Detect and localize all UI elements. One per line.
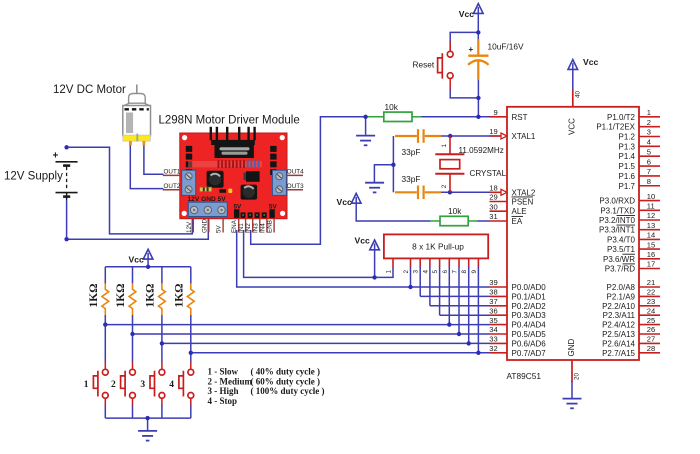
chip left pin 35 P0.4/AD4	[490, 324, 508, 326]
svg-text:P3.2/INT0: P3.2/INT0	[599, 216, 636, 225]
svg-text:RST: RST	[512, 113, 528, 122]
Vcc symbol right	[568, 60, 578, 70]
svg-text:10uF/16V: 10uF/16V	[488, 41, 524, 51]
svg-text:6: 6	[442, 270, 449, 274]
svg-text:AT89C51: AT89C51	[507, 371, 542, 381]
svg-text:34: 34	[489, 325, 497, 334]
wire column 4 segments	[190, 267, 192, 284]
svg-text:10: 10	[647, 192, 655, 201]
svg-text:P0.6/AD6: P0.6/AD6	[512, 339, 547, 348]
VCC pin 40 stub	[572, 90, 574, 107]
svg-text:26: 26	[647, 325, 655, 334]
wire RST net down-left to L298N IN2	[251, 117, 366, 245]
wire 1K top bus	[105, 266, 191, 268]
svg-text:12V Supply: 12V Supply	[4, 171, 63, 183]
svg-text:36: 36	[489, 306, 497, 315]
chip right pin 10 P3.0/RXD	[639, 200, 660, 202]
svg-text:P3.4/T0: P3.4/T0	[607, 235, 636, 244]
svg-text:2: 2	[441, 184, 448, 188]
svg-text:1: 1	[441, 144, 448, 148]
chip right pin 24 P2.3/A11	[639, 314, 660, 316]
svg-text:Vcc: Vcc	[129, 255, 145, 265]
chip right pin 6 P1.5	[639, 165, 660, 167]
resistor 10k (RST)	[384, 112, 412, 121]
module pin GND	[208, 219, 210, 233]
svg-text:P2.2/A10: P2.2/A10	[602, 302, 635, 311]
svg-text:1: 1	[84, 380, 89, 390]
ground below switches	[138, 430, 157, 432]
wire EA 10k to chip pin 31	[468, 220, 478, 222]
svg-text:XTAL2: XTAL2	[512, 188, 536, 197]
svg-text:EA: EA	[512, 217, 523, 226]
svg-text:33: 33	[489, 335, 497, 344]
svg-text:5: 5	[432, 270, 439, 274]
reset push button	[438, 41, 454, 90]
module pin ENB	[273, 219, 275, 233]
pull-up pin 2 stub	[410, 258, 412, 266]
svg-text:12V: 12V	[186, 221, 193, 233]
svg-text:IN4: IN4	[259, 223, 266, 233]
svg-text:10k: 10k	[385, 102, 399, 112]
chip left pin 33 P0.6/AD6	[490, 342, 508, 344]
svg-text:OUT1: OUT1	[164, 169, 181, 176]
chip left pin 39 P0.0/AD0	[490, 286, 508, 288]
svg-text:L298N Motor Driver Module: L298N Motor Driver Module	[159, 115, 300, 127]
Vcc symbol above 1K resistors	[143, 249, 153, 259]
svg-text:P0.4/AD4: P0.4/AD4	[512, 321, 547, 330]
svg-text:1: 1	[647, 108, 651, 117]
svg-text:18: 18	[489, 184, 497, 193]
svg-text:1KΩ: 1KΩ	[173, 284, 185, 308]
svg-text:Vcc: Vcc	[355, 236, 371, 246]
op-amp U1 AT89C51 body	[507, 107, 639, 360]
switch S3 push button	[150, 361, 165, 405]
electrolytic capacitor top-left	[207, 171, 224, 188]
pull-up pin 8 stub	[468, 258, 470, 266]
chip right pin 25 P2.4/A12	[639, 324, 660, 326]
wire column 2 segments	[132, 267, 134, 284]
ENB jumper	[269, 209, 274, 218]
svg-text:OUT3: OUT3	[287, 183, 304, 190]
chip right pin 12 P3.2/INT0	[639, 219, 660, 221]
resistor R1 1K ohm	[102, 283, 109, 315]
svg-text:8: 8	[647, 177, 651, 186]
svg-text:1KΩ: 1KΩ	[115, 284, 127, 308]
svg-text:39: 39	[489, 278, 497, 287]
capacitor 33pF top	[395, 129, 441, 143]
svg-text:GND: GND	[567, 339, 576, 357]
svg-text:2 - Medium: 2 - Medium	[208, 376, 253, 386]
wire XTAL2 row	[438, 191, 500, 193]
chip right pin 16 P3.6/WR	[639, 258, 660, 260]
svg-text:P2.0/A8: P2.0/A8	[607, 283, 636, 292]
wire reset button bottom to lower junction	[450, 89, 478, 98]
wire stub to ground near 10k	[365, 117, 367, 135]
chip right pin 26 P2.5/A13	[639, 333, 660, 335]
svg-text:VCC: VCC	[568, 118, 577, 135]
right SMD column	[270, 146, 276, 152]
svg-text:Vcc: Vcc	[337, 197, 353, 207]
svg-text:37: 37	[489, 297, 497, 306]
svg-text:( 40% duty cycle ): ( 40% duty cycle )	[251, 367, 321, 377]
svg-text:1 - Slow: 1 - Slow	[208, 367, 239, 377]
electrolytic capacitor center	[241, 185, 258, 200]
wire battery positive to L298N 12V pin	[67, 147, 193, 234]
pull-up pin 6 stub	[448, 258, 450, 266]
wire switch bottom bus	[105, 417, 191, 419]
module corner holes	[182, 135, 187, 140]
ground below chip	[563, 398, 582, 400]
svg-text:P0.7/AD7: P0.7/AD7	[512, 349, 547, 358]
wire 33pF left vertical bus	[392, 136, 394, 192]
wire bus to ground	[147, 418, 149, 431]
svg-text:P3.0/RXD: P3.0/RXD	[599, 197, 635, 206]
capacitor 10uF/16V polarized	[468, 39, 489, 80]
svg-text:5V: 5V	[216, 224, 223, 233]
chip right pin 5 P1.4	[639, 155, 660, 157]
chip left pin 9 RST	[490, 116, 508, 118]
Vcc symbol top	[474, 4, 484, 14]
chip right pin 15 P3.5/T1	[639, 248, 660, 250]
svg-text:32: 32	[489, 344, 497, 353]
wire switch 3 tap row to chip P0.6	[162, 342, 490, 344]
module pin IN4	[266, 219, 268, 233]
wire RST row: 10k to chip pin 9	[421, 116, 490, 118]
svg-text:33pF: 33pF	[402, 147, 421, 157]
wire pull-up pin 6 drop to P0.4 row	[448, 266, 450, 325]
svg-text:3: 3	[140, 380, 145, 390]
svg-text:+: +	[469, 45, 474, 54]
switch S2 push button	[121, 361, 136, 405]
resistor network 8 x 1K pull-up	[384, 234, 488, 258]
svg-text:P2.1/A9: P2.1/A9	[607, 292, 636, 301]
svg-text:P2.7/A15: P2.7/A15	[602, 349, 635, 358]
pull-up pin 3 stub	[419, 258, 421, 266]
svg-text:24: 24	[647, 306, 655, 315]
svg-text:P2.5/A13: P2.5/A13	[602, 330, 635, 339]
power screw terminal	[188, 202, 227, 216]
svg-text:P3.1/TXD: P3.1/TXD	[600, 206, 635, 215]
svg-text:P2.3/A11: P2.3/A11	[603, 311, 636, 320]
svg-text:P0.3/AD3: P0.3/AD3	[512, 311, 547, 320]
chip right pin 17 P3.7/RD	[639, 268, 660, 270]
svg-text:P3.6/WR: P3.6/WR	[603, 255, 635, 264]
svg-text:9: 9	[471, 270, 478, 274]
svg-text:20: 20	[574, 372, 581, 380]
svg-text:OUT4: OUT4	[287, 169, 304, 176]
svg-text:28: 28	[647, 344, 655, 353]
svg-text:P1.3: P1.3	[619, 142, 636, 151]
pull-up pin 4 stub	[429, 258, 431, 266]
chip right pin 14 P3.4/T0	[639, 238, 660, 240]
wire pull-up pin 5 drop to P0.3 row	[439, 266, 441, 315]
svg-text:P3.5/T1: P3.5/T1	[607, 245, 636, 254]
svg-text:IN2: IN2	[245, 223, 252, 233]
svg-text:P1.6: P1.6	[619, 172, 636, 181]
wire branch to caps ground	[374, 165, 393, 182]
svg-text:7: 7	[452, 270, 459, 274]
SMD resistor yellow	[200, 187, 212, 191]
svg-text:5: 5	[647, 147, 651, 156]
Vcc symbol for EA	[351, 193, 361, 203]
heatsink pins	[210, 127, 212, 141]
svg-text:P0.5/AD5: P0.5/AD5	[512, 330, 547, 339]
motor 12V DC	[136, 85, 138, 94]
wire Vcc stem near pull-up	[374, 249, 376, 277]
wire pull-up pin 7 drop to P0.5 row	[458, 266, 460, 334]
svg-text:Reset: Reset	[413, 60, 435, 70]
chip right pin 8 P1.7	[639, 185, 660, 187]
junction dots	[64, 145, 68, 149]
svg-text:IN1: IN1	[238, 223, 245, 233]
wire 10k left lead	[366, 116, 384, 118]
svg-text:12V DC Motor: 12V DC Motor	[53, 84, 126, 96]
chip left pin 29 PSEN	[490, 201, 508, 203]
resistor R2 1K ohm	[129, 283, 136, 315]
wire junction to reset button top	[450, 32, 478, 51]
svg-text:10k: 10k	[448, 206, 462, 216]
chip right pin 1 P1.0/T2	[639, 116, 660, 118]
svg-text:ENB: ENB	[267, 220, 274, 233]
chip right pin 23 P2.2/A10	[639, 305, 660, 307]
chip left pin 19 XTAL1	[490, 135, 508, 137]
svg-text:P1.0/T2: P1.0/T2	[607, 113, 636, 122]
heatsink	[211, 140, 255, 145]
chip right pin 2 P1.1/T2EX	[639, 126, 660, 128]
chip left pin 18 XTAL2	[490, 191, 508, 193]
svg-text:1: 1	[386, 270, 393, 274]
svg-text:12: 12	[647, 211, 655, 220]
module pin ENA	[238, 219, 240, 233]
chip right pin 3 P1.2	[639, 136, 660, 138]
OUT1/OUT2 screw terminal	[182, 170, 196, 195]
wire pull-up pin 3 drop to P0.1 row	[419, 266, 421, 296]
svg-text:29: 29	[489, 193, 497, 202]
svg-text:CRYSTAL: CRYSTAL	[470, 169, 507, 178]
svg-text:P1.1/T2EX: P1.1/T2EX	[596, 123, 635, 132]
svg-text:11: 11	[647, 202, 655, 211]
resistor strip below heatsink	[188, 161, 262, 167]
chip right pin 21 P2.0/A8	[639, 286, 660, 288]
svg-text:3: 3	[413, 270, 420, 274]
svg-text:21: 21	[647, 278, 655, 287]
L298N module board	[180, 133, 287, 219]
module pin IN2	[252, 219, 254, 233]
wire column 1 segments	[104, 267, 106, 284]
svg-text:Vcc: Vcc	[583, 57, 599, 67]
svg-text:P0.0/AD0: P0.0/AD0	[512, 283, 547, 292]
svg-text:33pF: 33pF	[402, 174, 421, 184]
svg-text:4: 4	[647, 138, 651, 147]
svg-text:38: 38	[489, 288, 497, 297]
svg-text:( 100% duty cycle ): ( 100% duty cycle )	[251, 386, 325, 396]
svg-text:2: 2	[647, 118, 651, 127]
wire pull-up pin 4 drop to P0.2 row	[429, 266, 431, 306]
svg-text:4: 4	[169, 380, 174, 390]
svg-text:13: 13	[647, 221, 655, 230]
wire IN1 net to Vcc junction and pull-up pin 1	[244, 230, 393, 277]
wire XTAL1 row	[438, 135, 500, 137]
module pin IN3	[259, 219, 261, 233]
chip right pin 11 P3.1/TXD	[639, 209, 660, 211]
left SMD column	[186, 146, 192, 152]
svg-text:P0.1/AD1: P0.1/AD1	[512, 292, 547, 301]
IN1-IN4 header pins	[241, 212, 246, 218]
pull-up pin stubs	[392, 258, 394, 267]
svg-text:19: 19	[489, 127, 497, 136]
switch S1 push button	[93, 361, 108, 405]
chip right pin 22 P2.1/A9	[639, 295, 660, 297]
wire switch 4 tap row to chip P0.7	[191, 352, 490, 354]
chip left pin 34 P0.5/AD5	[490, 333, 508, 335]
resistor 10k (EA)	[440, 216, 468, 225]
svg-text:40: 40	[575, 90, 582, 98]
chip left pin 37 P0.2/AD2	[490, 305, 508, 307]
wire chip GND pin 20 to ground	[571, 381, 573, 399]
svg-text:P3.3/INT1: P3.3/INT1	[599, 226, 636, 235]
svg-text:30: 30	[489, 202, 497, 211]
chip left pin 32 P0.7/AD7	[490, 352, 508, 354]
svg-text:P1.5: P1.5	[619, 162, 636, 171]
svg-text:P1.2: P1.2	[619, 133, 636, 142]
svg-text:ALE: ALE	[512, 207, 527, 216]
module pin 5V	[222, 219, 224, 233]
svg-text:9: 9	[493, 108, 497, 117]
ground below 33pF caps	[365, 182, 384, 184]
resistor R4 1K ohm	[187, 283, 194, 315]
ENA jumper	[234, 209, 239, 218]
svg-text:22: 22	[647, 288, 655, 297]
wire pull-up pin 8 drop to P0.6 row	[468, 266, 470, 343]
wire ENA net down to P0.0 row	[237, 230, 490, 287]
wire column 3 segments	[161, 267, 163, 284]
svg-text:8 x 1K Pull-up: 8 x 1K Pull-up	[412, 242, 464, 252]
module pin 12V	[192, 219, 194, 233]
GND pin 20 stub	[571, 360, 573, 382]
pull-up pin 7 stub	[458, 258, 460, 266]
wire Vcc stem to 1K bus	[147, 259, 149, 267]
chip right pin 27 P2.6/A14	[639, 342, 660, 344]
svg-text:8: 8	[461, 270, 468, 274]
svg-text:2: 2	[111, 380, 116, 390]
chip left pin 30 ALE	[490, 210, 508, 212]
chip right pin 7 P1.6	[639, 175, 660, 177]
svg-text:15: 15	[647, 240, 655, 249]
wire switch 1 tap row to chip P0.4	[105, 324, 489, 326]
svg-text:3: 3	[647, 128, 651, 137]
svg-text:( 60% duty cycle ): ( 60% duty cycle )	[251, 376, 321, 386]
OUT4/OUT3 screw terminal	[272, 170, 286, 195]
svg-text:P2.6/A14: P2.6/A14	[602, 339, 635, 348]
svg-text:4 - Stop: 4 - Stop	[208, 396, 238, 406]
wire chip VCC pin 40 to Vcc symbol	[572, 70, 574, 92]
wire Vcc to EA 10k	[356, 203, 430, 221]
crystal 11.0592MHz	[435, 136, 464, 192]
svg-text:P0.2/AD2: P0.2/AD2	[512, 302, 547, 311]
legend duty cycle text	[208, 367, 325, 406]
chip left pin 36 P0.3/AD3	[490, 314, 508, 316]
module pin IN1	[245, 219, 247, 233]
switch S4 push button	[179, 361, 194, 405]
chip right pin 4 P1.3	[639, 145, 660, 147]
wire motor right terminal to OUT1	[144, 144, 164, 174]
svg-text:Vcc: Vcc	[459, 9, 475, 19]
svg-text:27: 27	[647, 335, 655, 344]
capacitor 33pF bottom	[395, 186, 441, 200]
svg-text:11.0592MHz: 11.0592MHz	[459, 146, 504, 155]
svg-text:P2.4/A12: P2.4/A12	[602, 321, 635, 330]
svg-text:P1.4: P1.4	[619, 152, 636, 161]
svg-text:31: 31	[489, 212, 497, 221]
svg-text:17: 17	[647, 260, 655, 269]
wire switch 2 tap row to chip P0.5	[133, 333, 490, 335]
yellow LED	[228, 189, 232, 193]
svg-text:P3.7/RD: P3.7/RD	[605, 265, 635, 274]
battery 12V supply	[56, 162, 78, 200]
svg-text:1KΩ: 1KΩ	[88, 284, 100, 308]
svg-text:25: 25	[647, 316, 655, 325]
pull-up pin 9 stub	[477, 258, 479, 266]
wire pull-up pin 2 drop to P0.0 row	[410, 266, 412, 287]
wire motor left terminal to OUT2	[130, 144, 163, 189]
svg-text:1KΩ: 1KΩ	[144, 284, 156, 308]
svg-text:OUT2: OUT2	[164, 183, 181, 190]
ground below 10k	[356, 135, 375, 137]
svg-text:3 - High: 3 - High	[208, 386, 239, 396]
svg-text:XTAL1: XTAL1	[512, 132, 536, 141]
chip right pin 28 P2.7/A15	[639, 352, 660, 354]
wire battery negative to L298N GND pin	[67, 200, 209, 239]
svg-text:7: 7	[647, 167, 651, 176]
chip left pin 31 EA	[490, 220, 508, 222]
svg-text:35: 35	[489, 316, 497, 325]
chip right pin 13 P3.3/INT1	[639, 229, 660, 231]
small black part	[219, 189, 226, 193]
pull-up pin 5 stub	[439, 258, 441, 266]
svg-text:2: 2	[403, 270, 410, 274]
svg-text:16: 16	[647, 250, 655, 259]
svg-text:4: 4	[422, 270, 429, 274]
chip left pin 38 P0.1/AD1	[490, 295, 508, 297]
svg-text:IN3: IN3	[252, 223, 259, 233]
wire Vcc top to reset/cap junction	[477, 13, 479, 41]
svg-text:+: +	[53, 150, 59, 161]
small IC	[246, 171, 260, 182]
svg-text:6: 6	[647, 157, 651, 166]
Vcc symbol near pull-up	[370, 240, 380, 250]
svg-text:PSEN: PSEN	[512, 198, 534, 207]
wire cap bottom to RST row	[477, 79, 479, 117]
svg-text:14: 14	[647, 231, 655, 240]
wire pull-up pin 9 drop to P0.7 row	[477, 266, 479, 353]
resistor R3 1K ohm	[159, 283, 166, 315]
svg-text:P1.7: P1.7	[619, 182, 636, 191]
svg-text:GND: GND	[201, 219, 208, 233]
svg-text:23: 23	[647, 297, 655, 306]
